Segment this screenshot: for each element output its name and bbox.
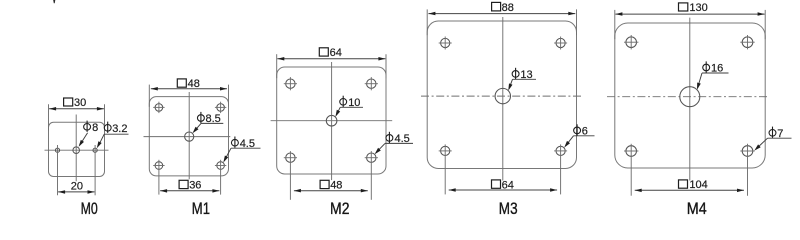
M3 phi6 label <box>574 127 581 134</box>
M4 phi7 leader <box>768 137 792 139</box>
M2 bottom-left corner hole <box>286 153 295 162</box>
svg-text:3.2: 3.2 <box>112 123 127 135</box>
M3 top-left corner hole <box>441 38 450 47</box>
M0 top dimension text square 30 <box>64 98 73 106</box>
M4 bottom-left corner hole <box>626 146 637 157</box>
M3 vertical centerline <box>502 17 504 181</box>
M3 phi13 label <box>512 71 519 78</box>
M2 bottom-right extension line <box>370 151 372 200</box>
svg-text:20: 20 <box>71 180 83 192</box>
M0 phi8 leader <box>80 133 88 145</box>
svg-text:64: 64 <box>502 179 514 191</box>
M2 top dimension text square 64 <box>319 48 328 56</box>
M3 bottom-left extension line <box>444 144 446 194</box>
M1 phi8.5 leader <box>201 122 223 124</box>
M3 bottom-right corner hole <box>556 146 565 155</box>
M4 vertical centerline <box>689 18 691 181</box>
M4 top dimension line 130 <box>615 13 764 15</box>
M1 bottom-left corner hole <box>155 162 163 170</box>
M2 bottom-right corner hole <box>367 153 376 162</box>
M1 top-left corner hole <box>155 104 163 112</box>
M1 bottom-left extension line <box>158 160 160 195</box>
stray mark <box>53 0 55 3</box>
svg-text:8: 8 <box>92 122 98 134</box>
M3 dashed horizontal centerline <box>421 95 583 97</box>
M0 phi3.2 leader <box>104 133 128 135</box>
M1 phi4.5 leader <box>231 147 261 149</box>
M2 phi4.5 label <box>386 135 393 142</box>
M1 phi8.5 label <box>197 115 204 122</box>
M0 horizontal centerline <box>45 149 109 151</box>
M3 top dimension text square 88 <box>492 2 501 11</box>
M1 top dimension extension lines <box>148 85 150 107</box>
M1 center hole <box>185 132 194 141</box>
M2 center hole <box>326 115 337 126</box>
svg-text:64: 64 <box>330 47 342 59</box>
M4 phi7 label <box>769 130 776 137</box>
M0 top dimension line 30 <box>49 108 104 110</box>
M1 phi4.5 label <box>231 139 238 146</box>
M4 bottom-right corner hole <box>742 146 753 157</box>
M4 phi16 leader <box>702 72 729 74</box>
plate M4 outline <box>615 23 765 168</box>
M1 vertical centerline <box>188 92 190 179</box>
M4 top-right corner hole <box>742 37 753 48</box>
M4 bottom-left extension line <box>630 144 632 196</box>
M0 left hole centerline / extension line <box>57 145 59 195</box>
M4 bottom-right extension line <box>747 144 749 196</box>
M3 bottom-right extension line <box>560 144 562 194</box>
M2 bottom dimension line 48 <box>294 190 368 192</box>
M4 top dimension text square 130 <box>679 3 688 11</box>
svg-text:M3: M3 <box>499 199 518 218</box>
M2 phi10 leader <box>340 106 363 108</box>
svg-text:30: 30 <box>74 97 86 109</box>
plate M1 outline <box>149 97 228 176</box>
M3 top dimension line 88 <box>428 13 575 15</box>
M2 horizontal centerline <box>271 120 393 122</box>
M3 bottom dimension text square 64 <box>492 180 501 188</box>
svg-text:104: 104 <box>689 179 707 191</box>
M3 phi6 leader <box>574 135 595 137</box>
M1 bottom-right corner hole <box>217 162 225 170</box>
M3 bottom dimension line 64 <box>449 189 557 191</box>
plate M0 outline <box>49 122 105 176</box>
svg-text:M2: M2 <box>330 199 350 218</box>
M1 top-right corner hole <box>217 104 225 112</box>
M4 dashed horizontal centerline <box>607 96 769 98</box>
M2 top-right corner hole <box>367 79 376 88</box>
svg-text:M0: M0 <box>81 199 98 218</box>
plate M2 outline <box>277 67 386 174</box>
M1 bottom-right extension line <box>220 160 222 195</box>
M0 left small hole <box>55 148 59 152</box>
svg-text:36: 36 <box>189 180 201 192</box>
M0 right small hole <box>93 148 97 152</box>
svg-text:88: 88 <box>502 2 514 14</box>
M4 top-left corner hole <box>626 37 637 48</box>
M1 bottom dimension text square 36 <box>179 180 188 188</box>
M4 bottom dimension text square 104 <box>679 180 688 188</box>
M2 top dimension extension lines <box>276 54 278 78</box>
M1 horizontal centerline <box>144 136 231 138</box>
M3 phi13 leader <box>513 78 537 80</box>
svg-text:48: 48 <box>330 180 342 192</box>
M3 top-right corner hole <box>556 38 565 47</box>
M0 center hole <box>73 147 80 154</box>
svg-text:M1: M1 <box>192 199 210 218</box>
M2 top-left corner hole <box>286 79 295 88</box>
M0 phi3.2 label <box>104 125 111 132</box>
M2 bottom dimension text square 48 <box>320 180 329 188</box>
svg-text:130: 130 <box>689 2 707 14</box>
plate M3 outline <box>427 21 576 169</box>
M2 bottom-left extension line <box>289 151 291 200</box>
M2 top dimension line 64 <box>277 58 385 60</box>
M0 bottom dimension line 20 <box>58 191 94 193</box>
M0 right hole centerline / extension line <box>94 145 96 195</box>
M1 top dimension text square 48 <box>177 79 186 87</box>
M4 phi16 label <box>703 64 710 71</box>
M4 top dimension extension lines <box>614 10 616 39</box>
M3 center hole <box>495 88 510 103</box>
M1 top dimension line 48 <box>151 88 227 90</box>
M0 phi8 label <box>84 124 91 131</box>
M2 vertical centerline <box>331 62 333 180</box>
M2 phi10 label <box>340 99 347 106</box>
M1 bottom dimension line 36 <box>160 190 219 192</box>
M4 center hole <box>680 87 700 107</box>
M3 bottom-left corner hole <box>441 146 450 155</box>
M3 top dimension extension lines <box>426 9 428 35</box>
svg-text:M4: M4 <box>687 199 707 218</box>
M2 phi4.5 leader <box>385 142 413 144</box>
M0 vertical centerline <box>75 115 77 182</box>
svg-text:48: 48 <box>188 78 200 90</box>
M4 bottom dimension line 104 <box>635 189 744 191</box>
M0 top dimension extension lines <box>48 104 50 130</box>
